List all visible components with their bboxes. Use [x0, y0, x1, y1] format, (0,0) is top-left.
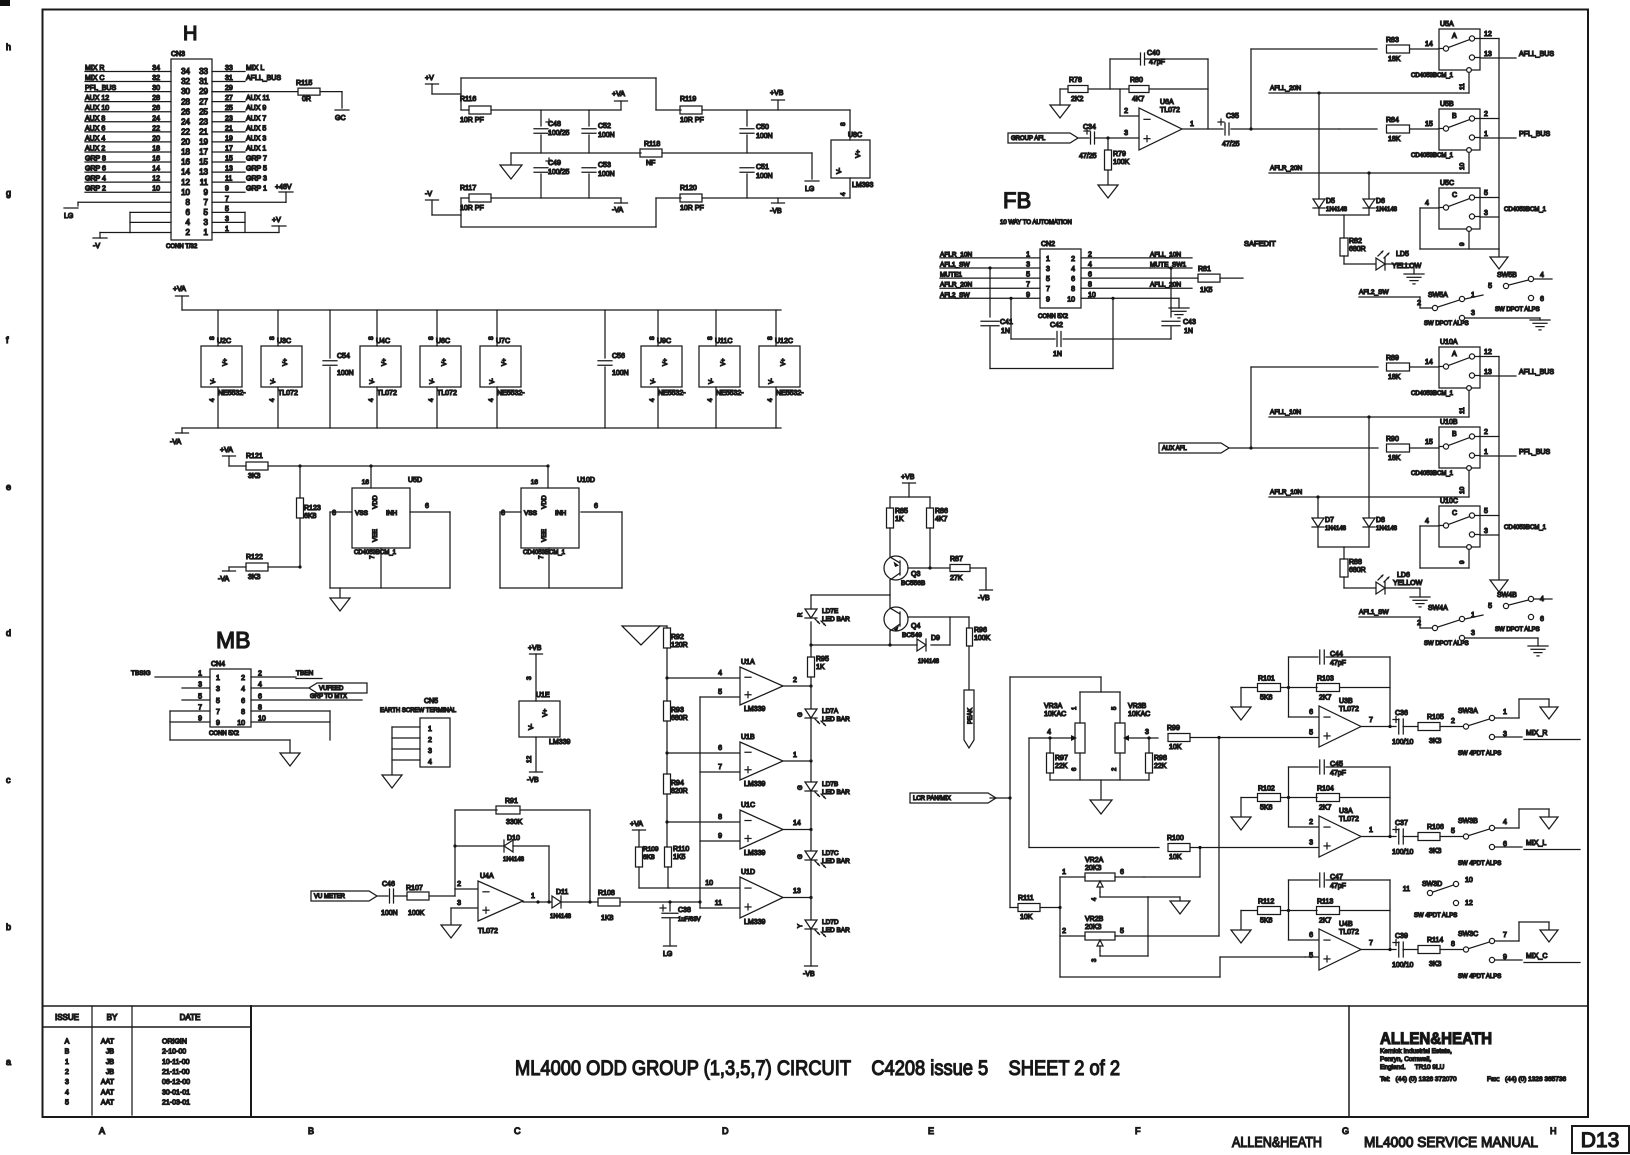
svg-text:2: 2: [793, 677, 797, 684]
diode D10: [455, 835, 549, 902]
svg-text:4: 4: [269, 398, 276, 402]
svg-text:1N4148: 1N4148: [550, 914, 572, 920]
svg-text:1N: 1N: [1184, 328, 1193, 335]
resistor R122: [246, 554, 302, 581]
svg-text:2K7: 2K7: [1319, 918, 1332, 925]
svg-text:8: 8: [767, 336, 774, 340]
svg-text:12: 12: [1465, 900, 1473, 907]
svg-text:3: 3: [1484, 210, 1488, 217]
resistor R86: [927, 497, 948, 568]
svg-text:4: 4: [649, 398, 656, 402]
svg-text:5: 5: [65, 1099, 69, 1106]
svg-text:R96: R96: [974, 627, 987, 634]
capacitor C34: [1079, 124, 1097, 160]
wire CN2 AFLL_20N: [1081, 282, 1192, 289]
wire U10A control: [1459, 391, 1469, 418]
flag GROUP AFL: [1008, 133, 1089, 143]
svg-text:-VB: -VB: [770, 208, 782, 215]
svg-text:GRP TO MTX: GRP TO MTX: [310, 694, 347, 700]
svg-text:100K: 100K: [408, 910, 425, 917]
wire U10C pin4 loop: [1420, 526, 1469, 568]
bus U10 group: [1498, 357, 1500, 581]
svg-text:SW 4PDT ALPS: SW 4PDT ALPS: [1458, 861, 1501, 867]
svg-text:11: 11: [200, 178, 209, 187]
svg-text:8: 8: [840, 122, 847, 126]
svg-text:V+: V+: [781, 358, 787, 366]
diode D9: [917, 635, 940, 665]
pan ground line: [1050, 780, 1149, 800]
svg-text:JB: JB: [106, 1069, 115, 1076]
power flag -VB U1E: [526, 737, 543, 784]
svg-text:C38: C38: [678, 907, 691, 914]
wire CN2 to R81: [1081, 277, 1198, 279]
resistor R90: [1386, 436, 1439, 462]
svg-text:AUX 6: AUX 6: [85, 125, 105, 132]
svg-text:SW 4PDT ALPS: SW 4PDT ALPS: [1458, 974, 1501, 980]
svg-text:CN5: CN5: [424, 698, 438, 705]
svg-text:8: 8: [718, 814, 722, 821]
wire +V top rail: [461, 78, 681, 110]
svg-text:ALLEN&HEATH: ALLEN&HEATH: [1380, 1029, 1492, 1048]
svg-text:22: 22: [181, 127, 190, 136]
svg-text:4: 4: [1540, 272, 1544, 279]
svg-text:9: 9: [216, 720, 220, 727]
svg-text:U1A: U1A: [741, 659, 755, 666]
svg-text:100N: 100N: [612, 370, 629, 377]
svg-text:VR2A: VR2A: [1085, 857, 1104, 864]
resistor R120: [680, 185, 704, 212]
power flag +VA U5D: [220, 447, 246, 466]
power flag -VB R87: [978, 590, 993, 602]
flag AUX AFL: [1159, 443, 1251, 453]
svg-text:AFL2_SW: AFL2_SW: [940, 292, 970, 299]
svg-text:3: 3: [1309, 840, 1313, 847]
svg-text:U5D: U5D: [408, 477, 422, 484]
svg-text:1N4148: 1N4148: [1325, 526, 1347, 532]
svg-text:2: 2: [1484, 111, 1488, 118]
svg-text:100/25: 100/25: [548, 169, 570, 176]
connector CN5: [380, 698, 457, 767]
svg-text:BY: BY: [107, 1013, 118, 1022]
wire VR3A wiper down: [1028, 738, 1030, 848]
plus input bus: [698, 697, 740, 908]
svg-text:GROUP AFL: GROUP AFL: [1011, 136, 1046, 142]
wire switch to ground SW3B: [1495, 809, 1549, 828]
svg-text:C: C: [1452, 192, 1457, 199]
svg-text:R87: R87: [950, 556, 963, 563]
svg-text:SW3C: SW3C: [1458, 931, 1478, 938]
svg-text:1: 1: [204, 228, 209, 237]
svg-text:10-11-00: 10-11-00: [162, 1059, 190, 1066]
resistor R100: [1029, 835, 1319, 861]
power flag -VA U5D: [218, 567, 246, 583]
pot VR3B wiper: [1123, 729, 1158, 741]
svg-text:3: 3: [1484, 528, 1488, 535]
net AFL1_SW: [1359, 609, 1432, 628]
footer text: [1232, 1134, 1538, 1151]
svg-text:5: 5: [1026, 272, 1030, 279]
plus pin labels: [715, 689, 722, 907]
svg-text:6: 6: [1540, 616, 1544, 623]
capacitor C49: [534, 158, 570, 198]
wire R121 to U5D U10D: [268, 464, 550, 488]
svg-text:20K3: 20K3: [1085, 865, 1101, 872]
svg-text:Q4: Q4: [911, 623, 920, 630]
svg-text:C: C: [514, 1126, 521, 1136]
op-amp U4B: [1309, 921, 1373, 970]
capacitor C46: [381, 881, 398, 917]
svg-text:0R: 0R: [302, 96, 311, 103]
svg-text:14: 14: [181, 168, 190, 177]
op-amp U6A: [1139, 99, 1182, 150]
svg-text:4: 4: [1047, 729, 1051, 736]
svg-text:6K8: 6K8: [304, 513, 317, 520]
svg-text:Fax: (44) (0) 1326 365736: Fax: (44) (0) 1326 365736: [1487, 1076, 1567, 1083]
svg-text:6: 6: [425, 503, 429, 510]
wire VR2B left down: [1060, 936, 1305, 977]
svg-text:C52: C52: [598, 123, 611, 130]
svg-text:1K5: 1K5: [1200, 287, 1213, 294]
svg-text:3: 3: [1026, 262, 1030, 269]
svg-text:LD7E: LD7E: [822, 608, 839, 615]
svg-text:3: 3: [457, 900, 461, 907]
svg-text:VSS: VSS: [355, 510, 369, 517]
ground U4A: [441, 925, 461, 938]
svg-text:R109: R109: [643, 846, 659, 853]
svg-text:4: 4: [767, 398, 774, 402]
svg-text:CD4053BCM_1: CD4053BCM_1: [1504, 525, 1547, 531]
svg-text:7: 7: [718, 764, 722, 771]
svg-text:+48V: +48V: [275, 184, 292, 191]
svg-text:AFLR_10N: AFLR_10N: [940, 251, 972, 258]
svg-text:10KAC: 10KAC: [1128, 711, 1150, 718]
transistor Q3: [884, 556, 950, 587]
svg-text:7: 7: [216, 709, 220, 716]
wire chain LD7A-LD7B: [810, 718, 812, 782]
op-amp U4A: [478, 873, 523, 935]
svg-text:4: 4: [428, 398, 435, 402]
svg-text:47pF: 47pF: [1149, 59, 1165, 66]
svg-text:2: 2: [1417, 300, 1421, 307]
feedback wires U3B: [1289, 657, 1391, 727]
svg-text:100/10: 100/10: [1392, 739, 1414, 746]
svg-text:NF: NF: [646, 160, 655, 167]
svg-text:ML4000 SERVICE MANUAL: ML4000 SERVICE MANUAL: [1364, 1134, 1538, 1151]
wire U5D pin8: [330, 510, 352, 588]
wire U10B control: [1459, 471, 1469, 498]
led LD7D: [798, 919, 850, 937]
svg-text:GRP 2: GRP 2: [85, 186, 106, 193]
ground R92: [622, 626, 667, 645]
svg-text:R115: R115: [296, 80, 312, 87]
svg-text:SW5A: SW5A: [1428, 292, 1448, 299]
svg-text:5: 5: [718, 689, 722, 696]
analog switch U10D: [521, 477, 595, 559]
svg-text:R78: R78: [1069, 77, 1082, 84]
svg-text:29: 29: [199, 87, 208, 96]
wire U4A output: [523, 893, 552, 904]
wire to R105: [1403, 726, 1418, 728]
svg-text:NE5532-: NE5532-: [497, 390, 525, 397]
svg-text:10 WAY TO AUTOMATION: 10 WAY TO AUTOMATION: [1000, 220, 1072, 226]
svg-text:R116: R116: [460, 96, 476, 103]
svg-text:2: 2: [1062, 928, 1066, 935]
svg-text:AFLL_BUS: AFLL_BUS: [246, 75, 281, 82]
svg-text:V+: V+: [283, 358, 289, 366]
ground VR2 wipers: [1170, 897, 1190, 914]
label SW 4PDT ALPS SW3C: [1458, 974, 1501, 980]
svg-text:-VB: -VB: [527, 777, 539, 784]
svg-text:100K: 100K: [1113, 159, 1130, 166]
wire R116 to +VA: [491, 109, 621, 111]
analog switch U5D: [352, 477, 422, 559]
svg-text:3: 3: [216, 686, 220, 693]
issue table: [43, 1006, 252, 1115]
svg-text:2: 2: [457, 881, 461, 888]
svg-text:A: A: [1452, 351, 1457, 358]
capacitor C37: [1392, 820, 1414, 856]
svg-text:C40: C40: [1147, 50, 1160, 57]
svg-text:26: 26: [152, 105, 160, 112]
svg-text:GRP 4: GRP 4: [85, 176, 106, 183]
svg-text:CD4053BCM_1: CD4053BCM_1: [1411, 391, 1454, 397]
resistor R92: [664, 628, 688, 701]
wire R107 to U4A: [429, 881, 478, 896]
svg-text:R95: R95: [816, 656, 829, 663]
svg-text:YELLOW: YELLOW: [1393, 580, 1423, 587]
svg-text:A: A: [99, 1126, 105, 1136]
svg-text:4: 4: [428, 759, 432, 766]
resistor R118: [640, 141, 819, 193]
svg-text:9: 9: [204, 188, 209, 197]
pot VR2B: [1060, 916, 1124, 940]
svg-text:AUX 5: AUX 5: [246, 125, 266, 132]
svg-text:+VB: +VB: [901, 474, 915, 481]
svg-text:A: A: [65, 1039, 70, 1046]
ground R78: [1050, 89, 1070, 118]
svg-text:CN2: CN2: [1041, 241, 1055, 248]
svg-text:LED BAR: LED BAR: [822, 927, 850, 934]
svg-text:4K7: 4K7: [935, 516, 948, 523]
svg-text:16: 16: [152, 156, 160, 163]
svg-text:CD4053BCM_1: CD4053BCM_1: [1411, 153, 1454, 159]
svg-text:TBSIG: TBSIG: [131, 670, 151, 677]
svg-text:10K: 10K: [1169, 744, 1182, 751]
net SAFEDIT: [1244, 239, 1276, 248]
svg-text:47pF: 47pF: [1330, 770, 1346, 777]
svg-text:NE5532-: NE5532-: [218, 390, 246, 397]
led LD7B: [798, 781, 850, 799]
svg-text:2: 2: [1124, 108, 1128, 115]
CN4 left bracket: [170, 711, 290, 753]
svg-text:6: 6: [186, 208, 191, 217]
svg-text:100N: 100N: [381, 910, 398, 917]
wire R117 to -VA: [491, 197, 621, 199]
svg-text:5: 5: [204, 208, 209, 217]
feedback wires U4B: [1289, 880, 1391, 950]
svg-text:AAT: AAT: [101, 1099, 115, 1106]
svg-text:SW4A: SW4A: [1428, 605, 1448, 612]
wire inverting input: [1120, 89, 1139, 116]
svg-text:4: 4: [209, 398, 216, 402]
svg-text:LED BAR: LED BAR: [822, 789, 850, 796]
svg-text:1N4148: 1N4148: [918, 659, 940, 665]
comparator U1B: [740, 734, 783, 788]
svg-text:+V: +V: [272, 217, 281, 224]
svg-text:4K7: 4K7: [1132, 96, 1145, 103]
svg-text:R103: R103: [1317, 676, 1334, 683]
switch SW4A: [1417, 605, 1483, 641]
wire diode junction: [1319, 215, 1369, 238]
svg-text:MIX L: MIX L: [246, 65, 264, 72]
svg-text:SW 4PDT ALPS: SW 4PDT ALPS: [1458, 751, 1501, 757]
svg-text:7: 7: [1026, 282, 1030, 289]
svg-text:R102: R102: [1258, 786, 1275, 793]
svg-text:R123: R123: [304, 505, 321, 512]
svg-text:AUX 7: AUX 7: [246, 115, 266, 122]
feedback node U4A: [454, 810, 456, 889]
svg-text:CONN 5X2: CONN 5X2: [1038, 314, 1069, 320]
wire output node: [1231, 49, 1339, 131]
svg-text:NE5532-: NE5532-: [716, 390, 744, 397]
resistor R101: [1241, 676, 1281, 708]
wire -V bracket: [93, 212, 171, 250]
pot VR2A: [1060, 857, 1144, 881]
label 10 way: [1000, 220, 1072, 226]
svg-text:MUTE1: MUTE1: [940, 272, 962, 279]
svg-text:TL072: TL072: [478, 928, 498, 935]
svg-text:10KAC: 10KAC: [1044, 711, 1066, 718]
capacitor C54: [323, 310, 354, 428]
resistor R88: [1340, 559, 1366, 577]
wire output U4B: [1361, 948, 1396, 951]
svg-text:1: 1: [1503, 709, 1507, 716]
svg-text:R94: R94: [671, 780, 684, 787]
svg-text:7: 7: [1046, 286, 1050, 293]
section label MB: [216, 627, 251, 653]
svg-text:1: 1: [1190, 121, 1194, 128]
flag LCR PANNING: [910, 793, 1010, 803]
wire U10C pin3 to bus: [1480, 534, 1499, 536]
svg-text:V-: V-: [211, 378, 217, 384]
svg-text:AUX AFL: AUX AFL: [1162, 446, 1187, 452]
svg-text:R107: R107: [406, 885, 423, 892]
wire LD5 to ground: [1385, 264, 1414, 274]
label SW 4PDT ALPS D: [1414, 913, 1457, 919]
svg-text:GRP 7: GRP 7: [246, 156, 267, 163]
svg-text:R118: R118: [644, 141, 660, 148]
wire R88 to LD6: [1344, 577, 1376, 588]
svg-text:16: 16: [531, 479, 539, 486]
svg-text:6: 6: [718, 745, 722, 752]
svg-text:10R PF: 10R PF: [680, 117, 704, 124]
svg-text:13: 13: [199, 168, 208, 177]
svg-text:U4A: U4A: [480, 873, 494, 880]
svg-text:AFLL_10N: AFLL_10N: [1270, 409, 1301, 416]
svg-text:U10A: U10A: [1440, 339, 1458, 346]
svg-text:5: 5: [1484, 190, 1488, 197]
svg-text:LED BAR: LED BAR: [822, 616, 850, 623]
svg-text:R120: R120: [680, 185, 697, 192]
wire VU to C46: [377, 895, 388, 897]
svg-text:1N4148: 1N4148: [1376, 526, 1398, 532]
power flag +VA rail: [173, 286, 189, 310]
wire D11 to R108: [561, 900, 598, 903]
svg-text:LM339: LM339: [549, 739, 571, 746]
wire R108 to comparators: [620, 900, 700, 903]
svg-text:R80: R80: [1130, 77, 1143, 84]
svg-text:C56: C56: [612, 353, 625, 360]
svg-text:TL072: TL072: [1339, 929, 1359, 936]
svg-text:V+: V+: [855, 150, 862, 158]
wire U10A pin12 to bus: [1480, 356, 1499, 358]
comparator U8C: [831, 122, 874, 196]
svg-text:12: 12: [181, 178, 190, 187]
svg-text:R: R: [798, 612, 804, 617]
svg-text:31: 31: [199, 77, 208, 86]
svg-text:R113: R113: [1317, 899, 1333, 906]
svg-text:V+: V+: [663, 358, 669, 366]
svg-text:U5A: U5A: [1440, 21, 1454, 28]
svg-text:D9: D9: [931, 635, 940, 642]
svg-text:C47: C47: [1330, 874, 1343, 881]
flag VUFEED: [251, 683, 367, 693]
ground R112: [1231, 930, 1251, 943]
resistor R81: [1198, 266, 1243, 294]
svg-text:R90: R90: [1386, 436, 1399, 443]
resistor R84: [1386, 117, 1439, 143]
svg-text:U12C: U12C: [775, 338, 793, 345]
issue table rows: [65, 1039, 190, 1107]
label SW DPOT ALPS 4: [1495, 627, 1540, 633]
svg-text:2: 2: [1071, 256, 1075, 263]
svg-text:R85: R85: [895, 508, 908, 515]
svg-text:680R: 680R: [671, 715, 688, 722]
ground bus U10: [1490, 580, 1508, 592]
transistor Q4: [884, 607, 969, 639]
capacitor C48: [534, 110, 570, 153]
resistor R98: [1146, 736, 1167, 780]
svg-text:2: 2: [1309, 819, 1313, 826]
net MIX_L: [1495, 840, 1580, 850]
svg-text:JB: JB: [106, 1049, 115, 1056]
ground R101: [1231, 707, 1251, 720]
wire U5D pin7: [380, 548, 382, 588]
wire U10D pin8: [500, 510, 521, 588]
svg-text:10: 10: [237, 720, 245, 727]
svg-text:34: 34: [152, 65, 160, 72]
svg-text:SW DPOT ALPS: SW DPOT ALPS: [1424, 321, 1469, 327]
LG net C38: [663, 946, 677, 958]
resistor R93: [664, 676, 688, 774]
svg-text:10K: 10K: [1020, 914, 1033, 921]
resistor R79: [1105, 138, 1130, 185]
svg-text:7: 7: [204, 198, 209, 207]
svg-text:20: 20: [152, 135, 160, 142]
svg-text:V-: V-: [528, 724, 535, 730]
net TBSIG: [131, 670, 210, 677]
svg-text:U1E: U1E: [536, 692, 550, 699]
analog switch U5B: [1411, 101, 1488, 159]
ground pan: [1090, 800, 1112, 814]
svg-text:30: 30: [152, 85, 160, 92]
wire switch to ground SW3A: [1495, 699, 1549, 718]
svg-text:SW 4PDT ALPS: SW 4PDT ALPS: [1414, 913, 1457, 919]
wire to R83: [1251, 48, 1377, 50]
svg-text:13: 13: [1484, 369, 1492, 376]
svg-text:8: 8: [1451, 941, 1455, 948]
svg-text:100/25: 100/25: [548, 130, 570, 137]
